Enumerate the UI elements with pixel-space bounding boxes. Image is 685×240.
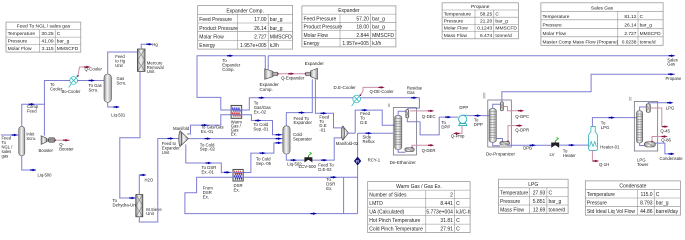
svg-text:57.20: 57.20 xyxy=(356,16,369,22)
svg-text:To ColdSep.-05: To ColdSep.-05 xyxy=(256,156,272,165)
wire Feed to Hg Unit xyxy=(108,52,138,74)
arrow Side Reflux xyxy=(366,132,372,135)
svg-text:26.14: 26.14 xyxy=(254,26,267,32)
svg-text:Propane: Propane xyxy=(471,4,490,10)
svg-text:Condensate: Condensate xyxy=(619,184,646,190)
svg-text:De-Ethanizer: De-Ethanizer xyxy=(390,160,417,165)
arrow H2O xyxy=(140,174,146,177)
wire Liq-500 xyxy=(22,156,36,170)
wire Feed to Expander Unit xyxy=(139,139,180,223)
wire To Expander Comp. xyxy=(197,56,265,110)
svg-text:LV: LV xyxy=(550,152,555,157)
wire DE overhead xyxy=(398,111,406,115)
svg-text:Q-DE-Cooler: Q-DE-Cooler xyxy=(370,89,395,94)
pump DPP xyxy=(459,115,467,125)
compressor Expander Comp. xyxy=(265,69,273,80)
svg-text:Q-Expander: Q-Expander xyxy=(281,76,305,81)
svg-text:Temperature: Temperature xyxy=(543,14,570,20)
arrow Condensate xyxy=(668,153,674,156)
wire RCY-1 bottom xyxy=(357,165,359,213)
svg-text:C: C xyxy=(495,11,499,17)
svg-text:bar_g: bar_g xyxy=(495,19,508,25)
arrow Feed to Expander Unit xyxy=(168,137,174,140)
svg-text:Expander Comp.: Expander Comp. xyxy=(226,8,264,14)
wire DE bottoms to reboiler xyxy=(398,150,405,153)
wire dsr bottom pass xyxy=(233,176,243,178)
wire To Cold Sep.-05 xyxy=(243,143,283,173)
arrow Q-1H xyxy=(593,160,599,163)
svg-text:1.957e+005: 1.957e+005 xyxy=(342,41,369,47)
wire Feed To Expander xyxy=(286,79,312,126)
wire To Cold Sep.-02 xyxy=(188,138,282,140)
arrow Residue Gas xyxy=(411,97,417,100)
table Feed To NGL / sales gas xyxy=(6,22,81,52)
drum LPG reboiler xyxy=(644,142,655,147)
svg-text:C: C xyxy=(656,192,660,198)
wire manifold-02 outlet xyxy=(348,132,356,134)
wire RCY-1 top / Side Reflux xyxy=(357,133,359,157)
arrow Q-DER xyxy=(428,144,434,147)
wire Feed To D.E-02 xyxy=(312,138,342,160)
drum DE reboiler xyxy=(405,148,415,152)
svg-text:C: C xyxy=(456,227,460,233)
wire recycle branch xyxy=(343,177,345,213)
svg-text:Manifold-02: Manifold-02 xyxy=(336,141,359,146)
svg-text:Pressure: Pressure xyxy=(444,19,464,25)
vessel Gas Scru. xyxy=(104,74,112,102)
drum DPP condenser xyxy=(500,102,503,111)
svg-text:12.69: 12.69 xyxy=(533,208,546,214)
svg-text:barrel/day: barrel/day xyxy=(656,209,679,215)
svg-text:Warm Gas / Gas Ex.: Warm Gas / Gas Ex. xyxy=(396,184,442,190)
wire DPP overhead xyxy=(493,104,501,108)
arrow To DSR Ex.-01 xyxy=(206,162,212,165)
unit De-Ethanizer box xyxy=(393,108,416,155)
svg-text:21.20: 21.20 xyxy=(480,19,493,25)
arrow Q-86 xyxy=(661,135,667,138)
svg-text:MMSCFD: MMSCFD xyxy=(372,33,394,39)
svg-text:Master Comp Mass Flow (Propane: Master Comp Mass Flow (Propane) xyxy=(543,39,619,45)
svg-text:Molar Flow: Molar Flow xyxy=(8,46,32,52)
drum DE condenser xyxy=(406,110,409,118)
svg-text:18.00: 18.00 xyxy=(356,25,369,31)
svg-text:58.25: 58.25 xyxy=(480,11,493,17)
svg-text:bar_g: bar_g xyxy=(57,39,70,45)
svg-text:RCY-1: RCY-1 xyxy=(368,157,381,162)
svg-text:0.0238: 0.0238 xyxy=(622,39,637,45)
arrow To Cold Sep.-01 b xyxy=(276,133,282,136)
wire DPP discharge xyxy=(467,115,489,117)
arrow Q-DPC xyxy=(518,109,524,112)
arrow Q-DE-Cooler xyxy=(378,86,384,89)
arrow Hg xyxy=(146,43,152,46)
wire Residue Gas xyxy=(242,98,420,110)
wire warm ex bottom pass xyxy=(231,114,242,116)
wire To DSR Ex.-01 xyxy=(186,145,232,173)
compressor Expander xyxy=(311,68,318,79)
arrow Q-DEC xyxy=(428,110,434,113)
arrow To Gas/Gas Ex-02 xyxy=(259,97,265,100)
svg-text:8.793: 8.793 xyxy=(640,201,653,207)
wire Condensate xyxy=(655,143,671,154)
arrow Q-45 xyxy=(662,125,668,128)
wire H2O xyxy=(139,175,143,195)
wire Q-1H xyxy=(592,151,596,162)
svg-text:Product Pressure: Product Pressure xyxy=(304,25,343,31)
svg-text:kJ/C-h: kJ/C-h xyxy=(456,210,471,216)
wire To Heater xyxy=(559,144,588,146)
arrow DPP discharge xyxy=(475,114,481,117)
arrow To Cold Sep.-02 b xyxy=(276,137,282,140)
svg-text:Manifold: Manifold xyxy=(173,126,190,131)
svg-text:8.441: 8.441 xyxy=(440,201,453,207)
wire dsr top pass xyxy=(233,172,243,174)
svg-text:Product Pressure: Product Pressure xyxy=(199,26,238,32)
table Expander xyxy=(302,6,396,47)
column De-Propanizer column xyxy=(489,108,496,142)
svg-text:Expander: Expander xyxy=(338,8,360,14)
svg-text:bar_g: bar_g xyxy=(640,22,653,28)
svg-text:MMSCFD: MMSCFD xyxy=(57,46,79,52)
recycle RCY-1 xyxy=(354,157,361,166)
arrow To Gas Scru. xyxy=(89,79,95,82)
wire To LPG xyxy=(592,118,636,127)
arrow Feed To D.E xyxy=(362,109,368,112)
table Condensate xyxy=(585,181,680,215)
svg-text:Q-DEC: Q-DEC xyxy=(422,114,436,119)
svg-text:0.1243: 0.1243 xyxy=(477,26,492,32)
svg-text:kJ/h: kJ/h xyxy=(270,43,279,49)
arrow Feed To D.E-01 xyxy=(321,112,327,115)
wire To Gas Scru. xyxy=(77,80,104,82)
svg-text:UA (Calculated): UA (Calculated) xyxy=(369,210,404,216)
svg-text:H2O: H2O xyxy=(145,177,154,182)
svg-text:Condensate: Condensate xyxy=(660,156,684,161)
svg-text:26.14: 26.14 xyxy=(624,22,636,28)
manifold Manifold xyxy=(179,131,189,146)
vessel Inlet Scru. xyxy=(19,126,25,155)
svg-text:DPP: DPP xyxy=(459,105,468,110)
svg-text:2.727: 2.727 xyxy=(624,31,636,37)
arrow To DPP xyxy=(445,116,451,119)
wire To Cooler xyxy=(44,81,69,105)
wire To DPP xyxy=(420,117,458,135)
svg-text:Q-1H: Q-1H xyxy=(599,162,609,167)
wire From DSR Ex. xyxy=(185,177,358,213)
arrow Liq-501 xyxy=(113,106,119,109)
cooler D.E-Cooler xyxy=(352,94,361,106)
svg-text:Feed Pressure: Feed Pressure xyxy=(199,17,232,23)
svg-text:Temperature: Temperature xyxy=(8,31,36,37)
wire DE condenser outlet xyxy=(407,118,420,122)
wire Q-DPC xyxy=(503,107,521,111)
svg-text:Pressure: Pressure xyxy=(587,201,607,207)
arrow Q-Expander xyxy=(288,73,294,76)
table Warm Gas / Gas Ex. xyxy=(368,182,471,233)
svg-text:81.12: 81.12 xyxy=(624,14,636,20)
svg-text:tonne/d: tonne/d xyxy=(640,39,656,45)
wire To Dehydra-Unit xyxy=(120,71,140,198)
arrow To Cold Sep.-05 xyxy=(260,152,266,155)
wire Feed To D.E-01 xyxy=(315,79,342,128)
svg-text:MMSCFD: MMSCFD xyxy=(495,26,517,32)
svg-text:Temperature: Temperature xyxy=(444,11,472,17)
svg-text:17.00: 17.00 xyxy=(254,17,267,23)
svg-text:2.727: 2.727 xyxy=(254,35,267,41)
arrow Q-Pmp xyxy=(453,132,459,135)
svg-text:Q-DPR: Q-DPR xyxy=(515,128,529,133)
valve LCV-500 xyxy=(304,152,312,162)
svg-text:Heater-01: Heater-01 xyxy=(600,144,620,149)
wire Q-45 xyxy=(650,108,665,127)
svg-text:Q-86: Q-86 xyxy=(661,137,671,142)
svg-text:Pressure: Pressure xyxy=(500,199,520,205)
unit De-Propanizer box xyxy=(488,100,512,147)
heat exchanger Warm Gas / Gas Ex. xyxy=(231,105,242,118)
svg-text:Sales Gas: Sales Gas xyxy=(591,5,614,11)
wire Hg xyxy=(141,44,149,49)
svg-text:C: C xyxy=(57,31,61,37)
wire warm ex top pass xyxy=(231,109,242,111)
svg-text:Mass Flow: Mass Flow xyxy=(444,33,468,39)
svg-text:Std Ideal Liq Vol Flow: Std Ideal Liq Vol Flow xyxy=(587,209,635,215)
svg-text:Feed To NGL / sales gas: Feed To NGL / sales gas xyxy=(17,24,71,30)
svg-text:C: C xyxy=(456,201,460,207)
svg-text:bar_g: bar_g xyxy=(270,17,283,23)
arrow Liq-500 xyxy=(30,169,36,172)
svg-text:tonne/d: tonne/d xyxy=(495,33,512,39)
svg-text:27.93: 27.93 xyxy=(533,191,546,197)
svg-text:Cold Pinch Temperature: Cold Pinch Temperature xyxy=(369,227,423,233)
wire LPG overhead xyxy=(640,107,647,111)
svg-text:5.851: 5.851 xyxy=(533,199,546,205)
svg-text:D.E-Cooler: D.E-Cooler xyxy=(334,85,357,90)
arrow Q-Booster xyxy=(63,139,69,142)
svg-text:27.91: 27.91 xyxy=(440,227,453,233)
svg-text:Pressure: Pressure xyxy=(543,22,563,28)
svg-text:bar_g: bar_g xyxy=(372,16,385,22)
arrow Propane xyxy=(668,73,674,76)
svg-text:Molar Flow: Molar Flow xyxy=(304,33,329,39)
svg-text:R: R xyxy=(356,159,359,164)
arrow Liq-502 xyxy=(291,159,297,162)
svg-text:Liq-501: Liq-501 xyxy=(111,112,126,117)
arrow To LPG xyxy=(609,116,615,119)
svg-text:kJ/h: kJ/h xyxy=(372,41,381,47)
wire LPG bottoms xyxy=(640,143,645,146)
arrow recycle line xyxy=(311,212,317,215)
wire DPP reboiler return xyxy=(496,139,502,142)
wire Feed To D.E xyxy=(355,110,394,133)
svg-text:Booster: Booster xyxy=(39,148,54,153)
arrow To Cold Sep.-02 xyxy=(205,137,211,140)
wire to DSR Ex line xyxy=(243,176,357,178)
arrow Feed To Expander xyxy=(299,111,305,114)
wire Expander Comp. discharge xyxy=(267,56,269,70)
svg-text:C: C xyxy=(549,191,553,197)
arrow Q-DPR xyxy=(516,124,522,127)
wire Q-DER xyxy=(412,145,431,148)
svg-text:Hg: Hg xyxy=(152,42,158,47)
svg-text:Molar Flow: Molar Flow xyxy=(199,35,224,41)
unit LPG Tower box xyxy=(634,102,657,152)
svg-text:Molar Flow: Molar Flow xyxy=(444,26,468,32)
svg-text:Energy: Energy xyxy=(304,41,320,47)
wire Sales Gas xyxy=(268,55,675,57)
svg-text:To ColdSep.-01: To ColdSep.-01 xyxy=(253,122,269,131)
svg-text:Propane: Propane xyxy=(666,76,683,81)
svg-text:5.773e+004: 5.773e+004 xyxy=(426,210,453,216)
wire feed inlet xyxy=(1,134,18,136)
svg-text:bar_g: bar_g xyxy=(372,25,385,31)
svg-text:Pressure: Pressure xyxy=(8,39,28,45)
table Sales Gas xyxy=(541,3,663,46)
svg-text:C: C xyxy=(456,218,460,224)
svg-text:LCV-500: LCV-500 xyxy=(299,164,317,169)
svg-text:bar_g: bar_g xyxy=(270,26,283,32)
wire Q-Pmp xyxy=(456,126,462,134)
svg-text:Temperature: Temperature xyxy=(587,192,615,198)
arrow feed inlet xyxy=(12,134,18,137)
wire To Gas/Gas Ex-01 xyxy=(187,115,231,134)
svg-text:Molar Flow: Molar Flow xyxy=(543,31,567,37)
wire Q-DE-Cooler xyxy=(360,87,381,95)
arrow Q-Cooler xyxy=(84,66,90,69)
svg-text:MMSCFD: MMSCFD xyxy=(640,31,662,37)
svg-text:44.86: 44.86 xyxy=(640,209,653,215)
wire DPB xyxy=(507,144,551,146)
arrow DPB xyxy=(530,144,536,147)
wire Q-Cooler xyxy=(78,67,90,76)
wire Q-86 xyxy=(652,137,665,142)
wire To Cold Sep.-01 xyxy=(242,115,283,135)
wire Q-DEC xyxy=(410,110,431,112)
arrow To Expander Comp. xyxy=(227,54,233,57)
arrow Feed To D.E-02 xyxy=(321,159,327,162)
svg-text:Q-Cooler: Q-Cooler xyxy=(85,66,103,71)
svg-text:LPG: LPG xyxy=(528,182,538,188)
svg-text:2.844: 2.844 xyxy=(356,33,369,39)
svg-text:tonne/d: tonne/d xyxy=(549,208,566,214)
arrow To Gas/Gas Ex-01 xyxy=(202,124,208,127)
arrow To Cold Sep.-05 b xyxy=(276,142,282,145)
compressor Booster xyxy=(41,136,47,145)
valve LV xyxy=(551,138,559,148)
svg-text:DPB: DPB xyxy=(523,146,532,151)
manifold Manifold-02 xyxy=(342,126,349,140)
wire Side Reflux xyxy=(358,132,394,134)
arrow to DSR Ex line xyxy=(331,176,337,179)
svg-text:Q-45: Q-45 xyxy=(660,128,670,133)
arrow To Dehydra-Unit xyxy=(129,197,135,200)
svg-text:Temperature: Temperature xyxy=(500,191,528,197)
arrow Comp Feed xyxy=(29,103,35,106)
heater Heater-01 xyxy=(589,127,598,151)
column M.Sieve Unit xyxy=(136,195,143,217)
svg-text:115.0: 115.0 xyxy=(640,192,652,198)
svg-text:C: C xyxy=(640,14,644,20)
wire Liq-501 xyxy=(108,102,119,107)
wire Comp Feed xyxy=(22,104,45,135)
arrow LPG product xyxy=(667,101,673,104)
svg-text:Energy: Energy xyxy=(199,43,215,49)
wire DPP feed into column xyxy=(488,115,489,117)
svg-text:To ColdSep.-02: To ColdSep.-02 xyxy=(200,142,216,151)
svg-text:Number of Sides: Number of Sides xyxy=(369,193,407,199)
svg-text:Q-Pmp: Q-Pmp xyxy=(451,134,465,139)
svg-text:Bo-Cooler: Bo-Cooler xyxy=(62,89,81,94)
wire Q-DPR xyxy=(508,126,520,142)
column LPG Tower column xyxy=(637,111,643,143)
svg-text:Liq-500: Liq-500 xyxy=(38,173,53,178)
svg-text:bar_g: bar_g xyxy=(656,201,669,207)
cooler Bo-Cooler xyxy=(69,76,78,88)
drum LPG condenser xyxy=(646,104,650,113)
drum DPP reboiler xyxy=(500,141,510,145)
svg-text:LPG: LPG xyxy=(666,106,675,111)
svg-text:Expander: Expander xyxy=(305,61,325,66)
wire DPP bottoms xyxy=(493,142,501,145)
svg-text:Mass Flow: Mass Flow xyxy=(500,208,524,214)
svg-text:Q-DER: Q-DER xyxy=(422,148,436,153)
wire Propane xyxy=(502,74,675,102)
svg-text:De-Propanizer: De-Propanizer xyxy=(486,152,516,157)
arrow To DSR Ex.-01 xyxy=(224,171,230,174)
table Expander Comp. xyxy=(198,6,293,50)
svg-text:6.474: 6.474 xyxy=(480,33,493,39)
column De-Ethanizer column xyxy=(395,115,402,149)
svg-text:Feed Pressure: Feed Pressure xyxy=(304,16,337,22)
svg-text:LMTD: LMTD xyxy=(369,201,383,207)
svg-text:41.09: 41.09 xyxy=(41,39,54,45)
wire Q-Expander xyxy=(278,73,306,75)
arrow Sales Gas xyxy=(669,54,675,57)
column Mercury Removal Unit xyxy=(137,49,145,71)
table Propane xyxy=(442,3,518,39)
heat exchanger DSR Ex. xyxy=(233,169,243,181)
svg-text:Hot Pinch Temperature: Hot Pinch Temperature xyxy=(369,218,420,224)
arrow To Heater xyxy=(569,144,575,147)
svg-text:2: 2 xyxy=(450,193,453,199)
table LPG xyxy=(499,179,569,214)
svg-text:3.115: 3.115 xyxy=(42,46,54,52)
svg-text:Q-DPC: Q-DPC xyxy=(515,114,529,119)
svg-text:MMSCFD: MMSCFD xyxy=(270,35,292,41)
svg-text:1.957e+005: 1.957e+005 xyxy=(240,43,267,49)
wire Liq-502 xyxy=(286,154,304,160)
wire LPG product xyxy=(648,103,670,104)
vessel Cold Separator xyxy=(283,126,290,154)
wire Q-Booster xyxy=(55,139,70,141)
arrow To Cold Sep.-01 xyxy=(255,119,261,122)
svg-text:bar_g: bar_g xyxy=(549,199,562,205)
svg-text:31.81: 31.81 xyxy=(440,218,453,224)
svg-text:30.25: 30.25 xyxy=(41,31,54,37)
